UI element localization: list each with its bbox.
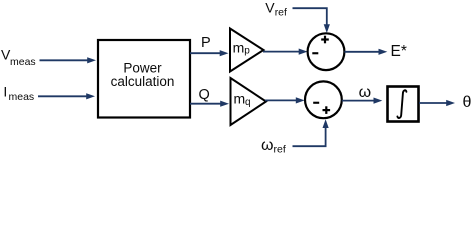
wire I_meas arrow xyxy=(38,93,95,99)
svg-text:meas: meas xyxy=(10,56,36,68)
label omega_ref xyxy=(261,137,286,155)
svg-text:meas: meas xyxy=(9,91,35,103)
wire E* output xyxy=(344,49,387,55)
wire P arrow xyxy=(190,50,229,56)
svg-text:q: q xyxy=(245,97,251,108)
wire theta output xyxy=(419,100,455,106)
wire sum2 to integrator xyxy=(342,98,383,104)
wire omega_ref to sum2 xyxy=(293,119,329,146)
block Power calculation xyxy=(98,40,190,118)
label V_meas xyxy=(1,46,36,67)
wire m_q to sum2 xyxy=(265,97,305,103)
summing junction S2 xyxy=(305,81,342,118)
wire V_ref to sum1 xyxy=(293,8,330,33)
svg-text:p: p xyxy=(244,46,250,57)
wire m_p to sum1 xyxy=(263,49,308,55)
svg-text:m: m xyxy=(233,39,245,55)
svg-text:ω: ω xyxy=(359,84,372,101)
gain m_p xyxy=(230,29,264,72)
gain m_q xyxy=(231,78,267,125)
svg-text:calculation: calculation xyxy=(111,74,175,89)
svg-text:ref: ref xyxy=(275,7,287,19)
label V_ref xyxy=(265,0,287,19)
wire V_meas arrow xyxy=(40,57,97,63)
svg-text:Q: Q xyxy=(199,87,210,103)
label I_meas xyxy=(3,83,34,103)
svg-text:ref: ref xyxy=(274,144,286,156)
summing junction S1 xyxy=(308,33,345,70)
svg-text:ω: ω xyxy=(261,137,274,154)
svg-text:θ: θ xyxy=(463,94,472,111)
wire Q arrow xyxy=(190,101,229,107)
svg-text:P: P xyxy=(201,35,211,51)
svg-text:m: m xyxy=(234,90,246,106)
svg-text:I: I xyxy=(3,83,7,99)
block integrator xyxy=(388,87,419,122)
svg-text:E*: E* xyxy=(391,43,407,60)
